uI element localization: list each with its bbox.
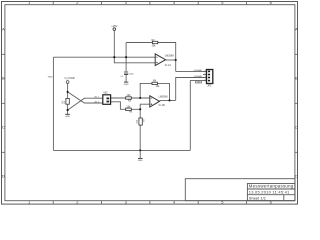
shunt amplifier U$1 <box>103 93 111 105</box>
op-amp IC1B <box>150 96 168 108</box>
svg-text:D: D <box>295 173 298 178</box>
wire IC1A output <box>166 59 176 61</box>
svg-text:C: C <box>2 124 5 129</box>
svg-text:100n: 100n <box>129 74 135 76</box>
connector JP1 <box>207 70 213 88</box>
junction +15V on rail <box>113 56 115 58</box>
resistor R2 <box>152 39 158 48</box>
frame outer border <box>2 2 298 205</box>
svg-text:2: 2 <box>205 73 206 75</box>
resistor R6 <box>126 105 133 113</box>
svg-text:D: D <box>2 173 5 178</box>
svg-text:B: B <box>295 75 298 80</box>
frame row ticks right <box>295 54 298 152</box>
wire R4 left <box>140 83 152 98</box>
junction IC1B output feedback <box>168 99 170 101</box>
svg-text:B: B <box>2 75 5 80</box>
svg-text:1: 1 <box>205 70 206 72</box>
frame row ticks left <box>2 54 5 152</box>
svg-text:GND: GND <box>65 116 70 118</box>
title block row divider 1 <box>247 188 295 190</box>
wire left vertical <box>52 57 54 150</box>
wire IC1B output <box>160 99 176 101</box>
frame inner border <box>5 5 295 201</box>
title block row divider 2 <box>247 194 295 196</box>
svg-text:-SIGNAL: -SIGNAL <box>194 75 203 78</box>
ground symbol below R1 <box>65 114 70 118</box>
resistor R4 <box>152 79 160 88</box>
svg-text:U$1: U$1 <box>104 93 109 95</box>
svg-text:C: C <box>295 124 298 129</box>
wire bottom ground rail <box>53 149 190 151</box>
frame column numbers bottom <box>28 200 273 205</box>
wire U1 pin2 jog to R6 <box>111 102 141 110</box>
op-amp IC1A <box>155 54 174 67</box>
svg-text:GND: GND <box>124 84 129 86</box>
wire connector pin 1 stub <box>203 70 207 72</box>
wire to connector pin 1 <box>176 70 207 72</box>
power +15V <box>111 24 117 30</box>
resistor R5 <box>126 94 132 102</box>
capacitor C1 <box>121 72 135 82</box>
net label GND boxed <box>196 81 202 84</box>
wire connector pin 3 stub <box>203 77 207 79</box>
svg-text:Sheet 1/1: Sheet 1/1 <box>249 195 267 200</box>
junction IC1B inverting node <box>139 97 141 99</box>
junction shunt top <box>67 91 69 93</box>
resistor R1 shunt <box>62 98 69 104</box>
junction IC1A output <box>175 59 177 61</box>
svg-text:IC-1A: IC-1A <box>165 64 172 67</box>
frame row letters left <box>2 26 5 178</box>
svg-text:+15V: +15V <box>111 24 117 28</box>
frame column ticks top <box>53 2 246 5</box>
svg-text:Messwertanpassung: Messwertanpassung <box>249 184 294 189</box>
title block outer box <box>185 179 295 201</box>
wire ground to connector pin 4 <box>190 81 206 151</box>
svg-text:13.05.2010 11:45:41: 13.05.2010 11:45:41 <box>249 189 290 194</box>
frame column ticks bottom <box>53 201 246 204</box>
svg-text:IC-1B: IC-1B <box>159 104 166 107</box>
title block inner box <box>247 184 295 201</box>
svg-text:A: A <box>2 26 5 31</box>
svg-text:3: 3 <box>205 76 206 78</box>
wire to connector pin 3 <box>176 78 207 101</box>
wire kelvin cross upper <box>68 92 103 103</box>
svg-text:A: A <box>295 26 298 31</box>
svg-text:+IN_1: +IN_1 <box>94 97 100 99</box>
wire top rail to IC1A inverting input <box>53 56 155 58</box>
svg-text:GND: GND <box>48 76 53 78</box>
junction feedback/C1 on rail <box>125 56 127 58</box>
wire C1 feedback vertical <box>125 43 127 72</box>
frame row letters right <box>295 26 298 178</box>
port N_CURR <box>65 77 75 84</box>
svg-text:GND: GND <box>196 82 201 84</box>
junction IC1B noninverting node <box>139 108 141 110</box>
svg-text:N_CURR: N_CURR <box>65 77 75 80</box>
svg-text:4: 4 <box>205 79 206 81</box>
ground symbol below ground rail <box>138 150 143 162</box>
wire N_CURR drop <box>67 83 69 114</box>
svg-text:LM358N: LM358N <box>165 55 174 58</box>
junction ground rail <box>139 149 141 151</box>
ground symbol below C1 <box>124 82 129 86</box>
svg-text:LM358N: LM358N <box>159 96 168 99</box>
wire R2 left <box>126 42 152 44</box>
wire U1 to R5 to IC1B inverting input <box>111 97 150 99</box>
svg-text:+SIGNAL: +SIGNAL <box>193 69 203 72</box>
junction shunt bottom <box>67 109 69 111</box>
wire connector pin 2 stub <box>203 74 207 76</box>
svg-text:GND: GND <box>138 160 143 162</box>
svg-text:JP1: JP1 <box>207 86 212 88</box>
wire noninverting vertical through R7 <box>140 104 150 150</box>
frame column numbers top <box>28 0 273 5</box>
wire R2 right <box>158 43 176 72</box>
wire connector pin 4 stub <box>203 80 207 82</box>
resistor R7 <box>137 118 146 125</box>
wire +15V drop <box>114 31 155 63</box>
wire R4 right <box>158 83 170 100</box>
title block sheet cell divider <box>283 195 285 201</box>
wire kelvin cross lower <box>68 98 103 110</box>
